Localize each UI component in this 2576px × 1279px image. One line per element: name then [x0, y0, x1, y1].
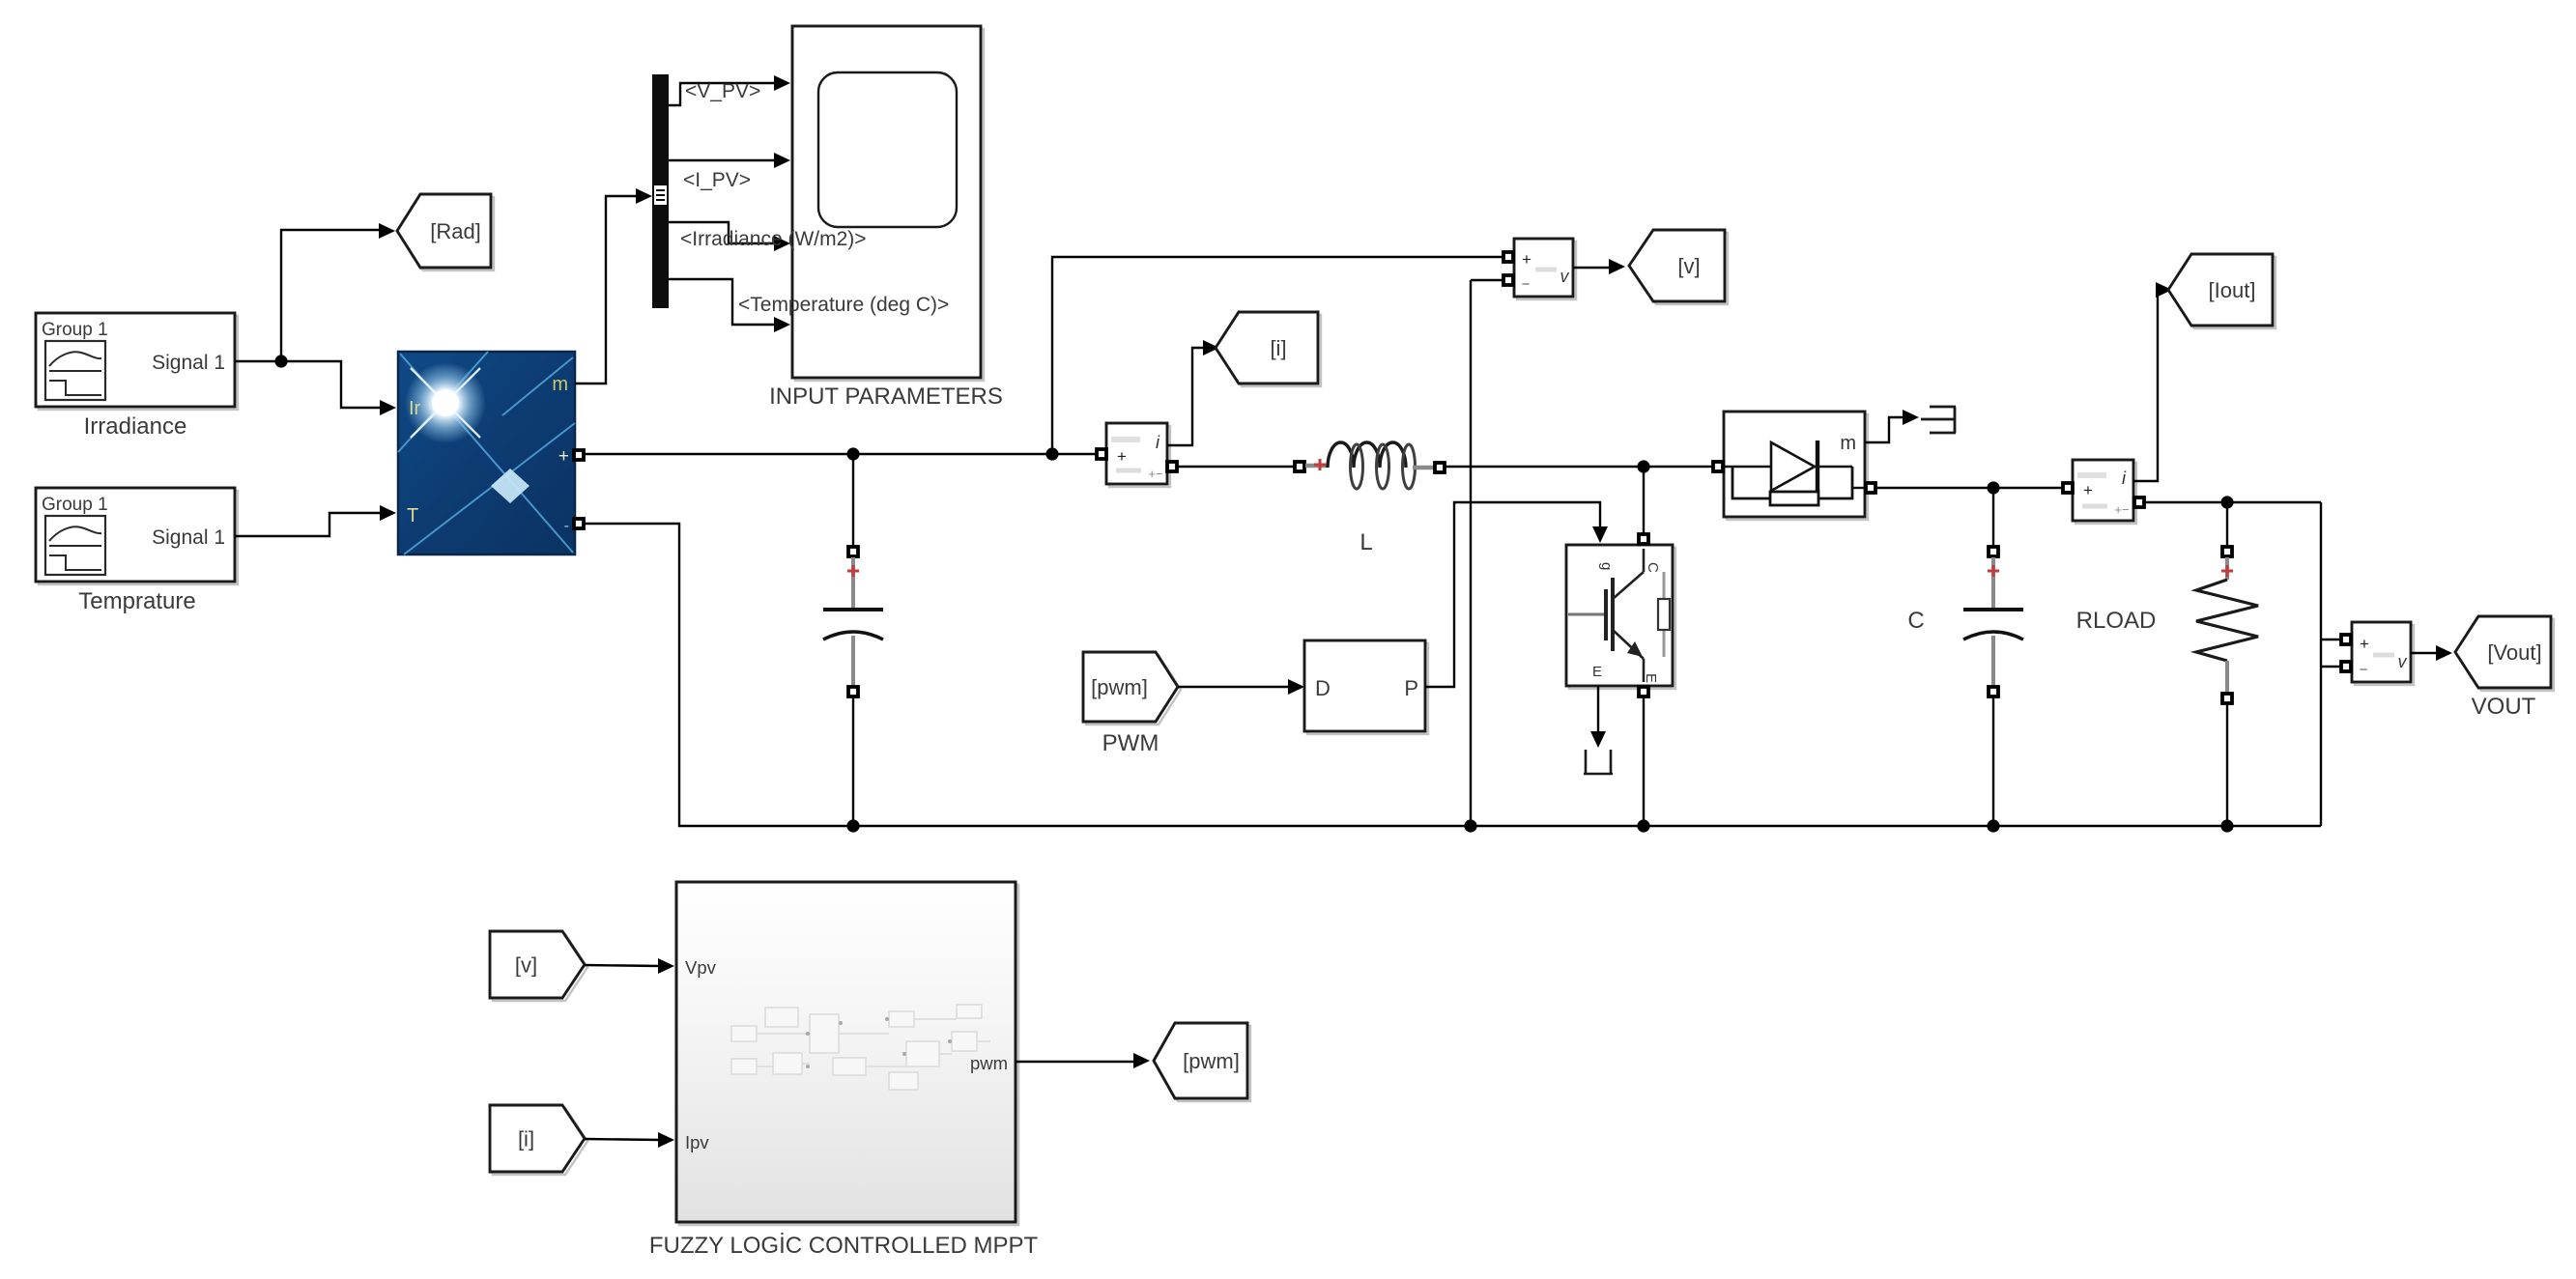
svg-text:T: T [407, 505, 418, 526]
IGBT block [1566, 545, 1675, 689]
junction bottom IGBT [1637, 819, 1649, 832]
svg-text:[v]: [v] [515, 952, 537, 977]
wire Iout signal [2133, 290, 2161, 481]
junction to voltage measurement [1045, 447, 1058, 460]
svg-text:+: + [1522, 250, 1531, 269]
resistor RLOAD [2076, 502, 2258, 826]
svg-text:PWM: PWM [1102, 730, 1159, 756]
fuzzy logic MPPT subsystem [676, 882, 1018, 1225]
svg-text:Temprature: Temprature [78, 588, 195, 614]
svg-text:v: v [2398, 652, 2408, 671]
signal builder block Temprature [36, 488, 238, 614]
svg-text:P: P [1404, 676, 1418, 700]
current measurement block Iout [2073, 460, 2136, 524]
wire v meter output [1573, 267, 1612, 269]
junction bottom capacitor C [1987, 819, 1999, 832]
svg-text:[v]: [v] [1677, 254, 1700, 278]
wire pwm output [1016, 1061, 1136, 1063]
svg-text:[Rad]: [Rad] [430, 219, 481, 243]
svg-text:<Irradiance (W/m2)>: <Irradiance (W/m2)> [680, 228, 867, 250]
wire PV m to bus selector [575, 196, 640, 384]
svg-text:v: v [1560, 267, 1570, 286]
svg-text:Signal 1: Signal 1 [152, 352, 225, 374]
svg-text:−: − [1522, 276, 1531, 293]
svg-text:VOUT: VOUT [2472, 694, 2536, 720]
wire Temprature to PV T input [235, 513, 383, 536]
svg-text:Group 1: Group 1 [42, 495, 108, 515]
svg-text:−: − [2360, 662, 2368, 678]
svg-text:+: + [2360, 635, 2369, 653]
diode block [1724, 412, 1868, 520]
ground symbol under IGBT [1584, 750, 1613, 774]
svg-text:E: E [1643, 673, 1659, 683]
wire right branch down [2320, 502, 2322, 826]
wire i signal to goto [1167, 348, 1208, 445]
goto tag Rad [400, 197, 494, 270]
svg-text:[pwm]: [pwm] [1183, 1049, 1240, 1073]
svg-text:RLOAD: RLOAD [2076, 608, 2157, 634]
svg-text:[pwm]: [pwm] [1091, 675, 1148, 699]
terminator symbol [1921, 407, 1956, 433]
PV array block [398, 352, 575, 554]
wire to PV Ir input [281, 361, 383, 408]
goto tag pwm out [1157, 1026, 1250, 1101]
wire to Rad goto [281, 230, 383, 361]
wire VOUT minus stub [2321, 666, 2340, 668]
goto tag Vout [2458, 619, 2554, 691]
wire Iout output [2145, 501, 2321, 503]
svg-text:Ir: Ir [409, 398, 421, 419]
goto tag v [1632, 233, 1728, 304]
junction RLOAD [2220, 496, 2233, 508]
svg-text:[i]: [i] [518, 1126, 534, 1151]
svg-text:g: g [1598, 562, 1615, 570]
wire PV+ main bus [585, 453, 1096, 455]
junction IGBT collector [1637, 460, 1649, 472]
svg-text:<I_PV>: <I_PV> [683, 169, 751, 191]
from tag i in [493, 1108, 587, 1175]
current measurement block 1 [1106, 423, 1170, 487]
wire to V meter plus [1052, 257, 1503, 454]
wire V_PV to scope [669, 83, 777, 105]
svg-text:m: m [1840, 433, 1856, 454]
svg-text:+: + [2083, 481, 2093, 499]
wire Irradiance output [235, 360, 281, 362]
svg-text:C: C [1645, 562, 1661, 573]
wire v to Vpv [585, 965, 661, 966]
svg-text:[i]: [i] [1270, 336, 1286, 360]
svg-text:D: D [1315, 676, 1331, 700]
svg-text:C: C [1907, 608, 1924, 634]
goto tag Iout [2171, 257, 2275, 328]
svg-text:L: L [1360, 529, 1372, 555]
junction bottom v-minus [1464, 819, 1476, 832]
svg-text:[Iout]: [Iout] [2209, 278, 2256, 302]
junction input capacitor [846, 447, 859, 460]
svg-text:Vpv: Vpv [685, 957, 717, 978]
wire IGBT collector [1643, 467, 1645, 533]
DP block [1304, 640, 1428, 734]
svg-text:E: E [1592, 664, 1602, 680]
bus selector [652, 74, 669, 308]
svg-text:FUZZY LOGİC CONTROLLED MPPT: FUZZY LOGİC CONTROLLED MPPT [649, 1233, 1039, 1259]
svg-text:m: m [552, 374, 568, 395]
svg-text:Signal 1: Signal 1 [152, 526, 225, 549]
wire VOUT output [2411, 652, 2439, 654]
voltage measurement block v [1514, 239, 1576, 299]
wire to inductor [1178, 466, 1295, 468]
svg-text:+−: +− [1148, 467, 1162, 481]
svg-text:INPUT PARAMETERS: INPUT PARAMETERS [769, 384, 1003, 410]
wire V meter minus to ground bus [1470, 280, 1472, 826]
signal builder block Irradiance [36, 313, 238, 440]
inductor L [1295, 442, 1445, 555]
wire i to Ipv [585, 1139, 661, 1140]
goto tag i [1218, 315, 1321, 386]
capacitor C [1907, 488, 2023, 826]
svg-text:[Vout]: [Vout] [2487, 640, 2541, 665]
from tag v in [493, 934, 587, 1001]
scope INPUT PARAMETERS [769, 26, 1003, 410]
svg-text:<V_PV>: <V_PV> [685, 80, 760, 102]
voltage measurement block VOUT [2352, 622, 2414, 685]
svg-text:pwm: pwm [970, 1053, 1008, 1073]
wire pwm to DP block [1178, 686, 1291, 688]
junction capacitor C [1987, 481, 1999, 494]
junction bottom capacitor [846, 819, 859, 832]
PV - output port [574, 519, 584, 528]
wire VOUT plus stub [2321, 639, 2340, 640]
wire V meter minus stub [1471, 279, 1503, 281]
wire diode m signal [1865, 417, 1905, 442]
wire E to ground [1597, 686, 1599, 732]
wire Temperature signal to scope [669, 279, 777, 325]
wire diode out bus [1876, 487, 2062, 489]
svg-text:+: + [558, 446, 569, 467]
svg-text:+−: +− [2114, 502, 2129, 517]
svg-text:<Temperature (deg C)>: <Temperature (deg C)> [738, 294, 949, 316]
wire IGBT emitter to bus [1643, 697, 1645, 826]
wire inductor to diode [1445, 466, 1712, 468]
PV + output port [574, 450, 584, 460]
junction bottom RLOAD [2220, 819, 2233, 832]
svg-text:Group 1: Group 1 [42, 320, 108, 340]
wire PV- and bottom bus [585, 524, 2321, 826]
svg-text:-: - [564, 518, 569, 534]
wire gate P to IGBT [1425, 502, 1600, 687]
wire Irradiance signal to scope [669, 222, 777, 243]
svg-text:Irradiance: Irradiance [84, 413, 187, 440]
wire I_PV to scope [669, 159, 777, 161]
svg-text:Ipv: Ipv [685, 1132, 709, 1152]
from tag pwm in [1086, 655, 1181, 725]
input capacitor [823, 454, 883, 826]
svg-text:+: + [1117, 447, 1127, 466]
junction Irradiance branch [274, 355, 287, 367]
